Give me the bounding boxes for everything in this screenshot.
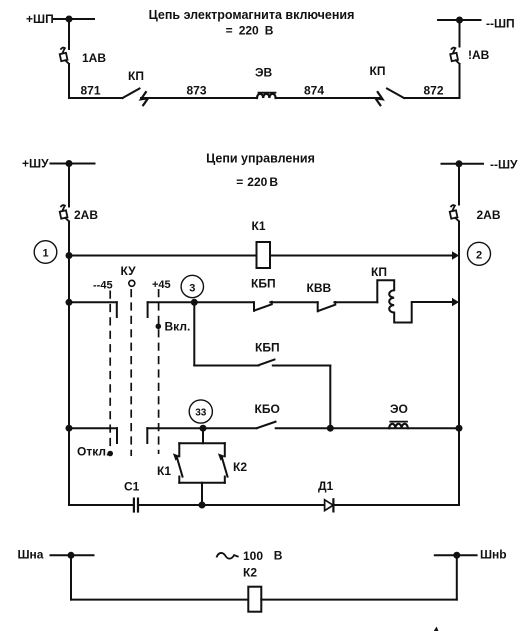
- svg-text:2АВ: 2АВ: [74, 208, 98, 222]
- svg-text:220: 220: [247, 175, 267, 189]
- svg-text:КБП: КБП: [255, 341, 280, 355]
- svg-text:КБО: КБО: [255, 402, 280, 416]
- svg-text:Цепь электромагнита включения: Цепь электромагнита включения: [149, 8, 355, 22]
- svg-text:873: 873: [187, 84, 207, 98]
- svg-text:--45: --45: [93, 280, 113, 292]
- svg-text:--ШУ: --ШУ: [490, 158, 518, 172]
- svg-text:871: 871: [81, 84, 101, 98]
- svg-text:1АВ: 1АВ: [82, 51, 106, 65]
- svg-text:Цепи управления: Цепи управления: [206, 152, 315, 166]
- svg-text:=: =: [226, 23, 233, 37]
- svg-text:+ШУ: +ШУ: [22, 157, 49, 171]
- svg-text:!АВ: !АВ: [468, 48, 490, 62]
- svg-text:Д1: Д1: [318, 479, 334, 493]
- svg-text:КП: КП: [371, 265, 387, 279]
- svg-text:КВВ: КВВ: [307, 281, 332, 295]
- svg-text:В: В: [274, 549, 283, 563]
- svg-text:КБП: КБП: [251, 277, 276, 291]
- svg-text:К2: К2: [233, 460, 247, 474]
- svg-text:К2: К2: [243, 565, 257, 579]
- svg-text:--ШП: --ШП: [486, 17, 515, 31]
- svg-text:220: 220: [239, 23, 259, 37]
- svg-text:Откл.: Откл.: [77, 445, 109, 459]
- svg-text:+ШП: +ШП: [26, 12, 54, 26]
- svg-text:Шнb: Шнb: [480, 547, 507, 561]
- svg-text:100: 100: [243, 549, 263, 563]
- svg-text:2АВ: 2АВ: [477, 208, 501, 222]
- svg-text:=: =: [236, 175, 243, 189]
- svg-text:872: 872: [424, 84, 444, 98]
- svg-text:К1: К1: [252, 219, 266, 233]
- svg-text:КП: КП: [370, 64, 386, 78]
- svg-text:С1: С1: [124, 480, 140, 494]
- svg-text:874: 874: [304, 84, 324, 98]
- svg-text:1: 1: [42, 248, 48, 260]
- svg-text:ЭО: ЭО: [390, 402, 408, 416]
- svg-text:ЭВ: ЭВ: [255, 66, 273, 80]
- svg-text:В: В: [265, 23, 274, 37]
- svg-text:2: 2: [476, 249, 482, 261]
- svg-text:К1: К1: [157, 464, 171, 478]
- svg-text:3: 3: [189, 282, 195, 294]
- svg-text:Шна: Шна: [18, 547, 44, 561]
- svg-text:Вкл.: Вкл.: [165, 320, 191, 334]
- svg-text:КП: КП: [128, 69, 144, 83]
- svg-text:КУ: КУ: [121, 264, 137, 278]
- svg-text:+45: +45: [152, 279, 171, 291]
- svg-text:В: В: [269, 175, 278, 189]
- svg-text:33: 33: [195, 408, 207, 419]
